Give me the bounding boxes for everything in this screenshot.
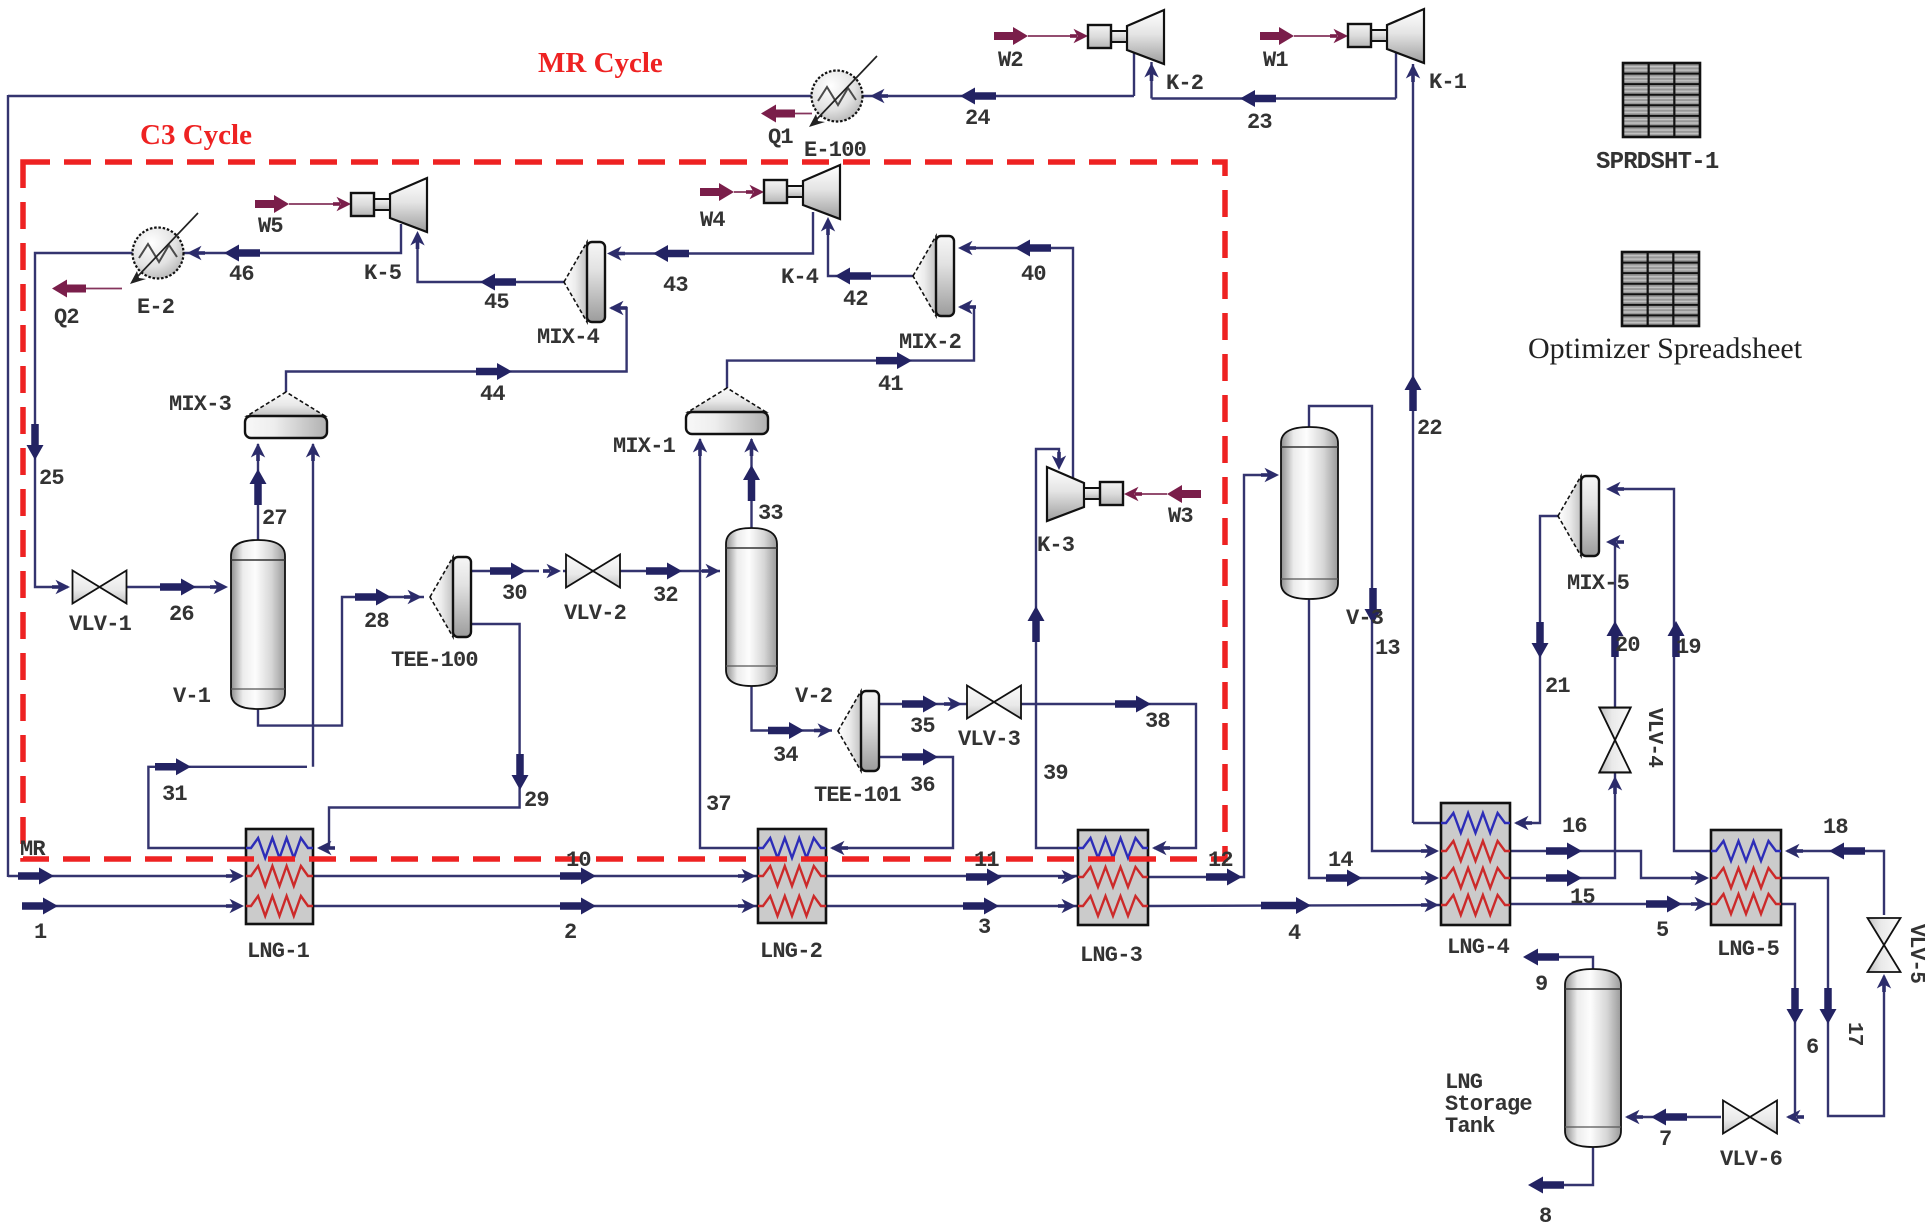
svg-text:K-1: K-1 (1429, 70, 1467, 95)
svg-text:46: 46 (229, 262, 254, 287)
svg-text:41: 41 (878, 372, 903, 397)
svg-text:43: 43 (663, 273, 688, 298)
svg-text:39: 39 (1043, 761, 1068, 786)
svg-text:28: 28 (364, 609, 389, 634)
svg-text:VLV-4: VLV-4 (1642, 708, 1665, 767)
svg-text:LNG-3: LNG-3 (1080, 943, 1143, 968)
svg-text:VLV-5: VLV-5 (1904, 924, 1927, 983)
svg-text:33: 33 (758, 501, 783, 526)
svg-text:Q1: Q1 (768, 125, 793, 150)
svg-text:35: 35 (910, 714, 935, 739)
svg-text:7: 7 (1659, 1127, 1671, 1152)
svg-text:3: 3 (978, 915, 991, 940)
svg-text:36: 36 (910, 773, 935, 798)
svg-text:45: 45 (484, 290, 509, 315)
svg-text:K-2: K-2 (1166, 71, 1203, 96)
svg-text:6: 6 (1806, 1035, 1818, 1060)
svg-text:14: 14 (1328, 848, 1353, 873)
svg-text:17: 17 (1842, 1022, 1865, 1046)
svg-text:40: 40 (1021, 262, 1046, 287)
svg-text:10: 10 (566, 848, 591, 873)
svg-text:V-3: V-3 (1346, 606, 1384, 631)
svg-text:20: 20 (1615, 633, 1640, 658)
svg-text:11: 11 (974, 848, 999, 873)
svg-text:Q2: Q2 (54, 305, 79, 330)
svg-text:12: 12 (1208, 848, 1233, 873)
svg-text:LNG-4: LNG-4 (1447, 935, 1510, 960)
svg-text:C3 Cycle: C3 Cycle (140, 119, 252, 151)
svg-text:K-3: K-3 (1037, 533, 1075, 558)
svg-text:E-2: E-2 (137, 295, 174, 320)
svg-text:VLV-2: VLV-2 (564, 601, 626, 626)
svg-text:V-2: V-2 (795, 684, 832, 709)
svg-text:W2: W2 (998, 48, 1023, 73)
svg-text:4: 4 (1288, 921, 1301, 946)
svg-text:Tank: Tank (1445, 1114, 1495, 1139)
svg-text:24: 24 (965, 106, 990, 131)
svg-text:15: 15 (1570, 885, 1595, 910)
svg-text:W1: W1 (1263, 48, 1288, 73)
svg-text:SPRDSHT-1: SPRDSHT-1 (1596, 149, 1719, 176)
svg-text:29: 29 (524, 788, 549, 813)
svg-text:MIX-1: MIX-1 (613, 434, 676, 459)
svg-text:32: 32 (653, 583, 678, 608)
svg-text:16: 16 (1562, 814, 1587, 839)
svg-text:MIX-3: MIX-3 (169, 392, 232, 417)
svg-text:8: 8 (1539, 1204, 1552, 1226)
svg-text:E-100: E-100 (804, 138, 866, 163)
svg-text:5: 5 (1656, 918, 1669, 943)
svg-text:TEE-101: TEE-101 (814, 783, 901, 808)
svg-text:19: 19 (1676, 635, 1701, 660)
svg-text:MIX-2: MIX-2 (899, 330, 961, 355)
svg-text:LNG-2: LNG-2 (760, 939, 822, 964)
svg-text:26: 26 (169, 602, 194, 627)
svg-text:21: 21 (1545, 674, 1570, 699)
svg-text:W4: W4 (700, 208, 725, 233)
svg-text:LNG-5: LNG-5 (1717, 937, 1780, 962)
svg-text:23: 23 (1247, 110, 1272, 135)
svg-text:44: 44 (480, 382, 505, 407)
svg-text:22: 22 (1417, 416, 1442, 441)
svg-text:1: 1 (34, 920, 47, 945)
svg-text:MR Cycle: MR Cycle (538, 47, 663, 79)
svg-text:2: 2 (564, 920, 576, 945)
svg-text:Optimizer Spreadsheet: Optimizer Spreadsheet (1528, 332, 1803, 365)
svg-text:TEE-100: TEE-100 (391, 648, 478, 673)
svg-text:34: 34 (773, 743, 798, 768)
svg-text:42: 42 (843, 287, 868, 312)
svg-text:MR: MR (20, 837, 46, 862)
svg-text:K-4: K-4 (781, 265, 819, 290)
svg-text:31: 31 (162, 782, 187, 807)
svg-text:37: 37 (706, 792, 731, 817)
svg-text:27: 27 (262, 506, 287, 531)
svg-text:18: 18 (1823, 815, 1848, 840)
svg-text:VLV-6: VLV-6 (1720, 1147, 1782, 1172)
svg-text:LNG-1: LNG-1 (247, 939, 310, 964)
svg-text:W3: W3 (1168, 504, 1193, 529)
svg-text:MIX-5: MIX-5 (1567, 571, 1630, 596)
svg-text:VLV-3: VLV-3 (958, 727, 1021, 752)
svg-text:MIX-4: MIX-4 (537, 325, 600, 350)
svg-text:K-5: K-5 (364, 261, 402, 286)
svg-text:25: 25 (39, 466, 64, 491)
svg-text:W5: W5 (258, 214, 283, 239)
svg-text:38: 38 (1145, 709, 1170, 734)
svg-text:VLV-1: VLV-1 (69, 612, 132, 637)
svg-text:V-1: V-1 (173, 684, 211, 709)
svg-text:9: 9 (1535, 972, 1547, 997)
svg-text:13: 13 (1375, 636, 1400, 661)
svg-text:30: 30 (502, 581, 527, 606)
